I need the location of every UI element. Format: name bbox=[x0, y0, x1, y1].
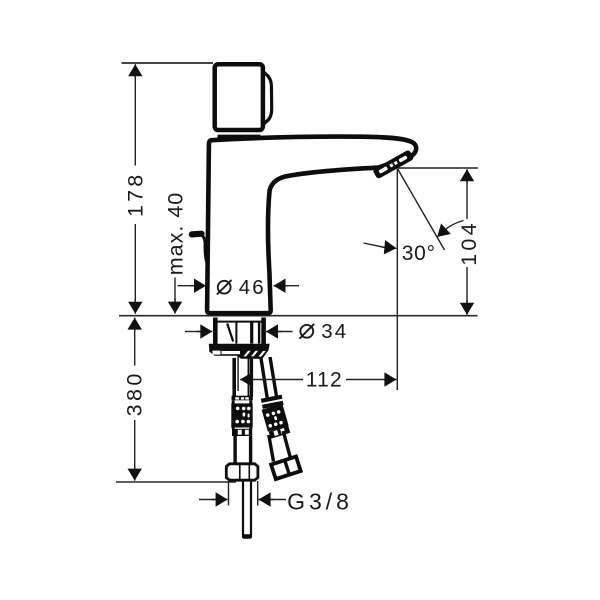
leader max. 40 (countertop thickness) bbox=[174, 278, 176, 314]
temperature lever bar bbox=[192, 231, 202, 238]
temperature lever stem bbox=[202, 235, 207, 262]
vertical hose: braided section bbox=[231, 403, 252, 427]
svg-text:max. 40: max. 40 bbox=[163, 192, 187, 275]
svg-text:G3/8: G3/8 bbox=[287, 488, 353, 514]
hex connection nut bbox=[226, 464, 258, 480]
outlet vertical extension line bbox=[396, 169, 398, 391]
dimension 104 (outlet height) bbox=[466, 169, 468, 315]
angle arc leader arrow bbox=[437, 221, 463, 237]
diagonal hose: lower collar band bbox=[269, 426, 291, 439]
select button on handle knob bbox=[263, 71, 272, 125]
faucet body and spout outline bbox=[207, 137, 416, 314]
vertical hose: lower tube bbox=[235, 436, 251, 464]
diagonal hose: upper tube bbox=[261, 357, 277, 399]
svg-text:178: 178 bbox=[124, 172, 148, 217]
vertical hose: lower collar band bbox=[232, 428, 252, 437]
diameter symbol of 46 bbox=[217, 280, 232, 295]
svg-text:46: 46 bbox=[239, 276, 266, 299]
svg-text:34: 34 bbox=[321, 320, 348, 343]
dimension 178 (spout height) bbox=[134, 64, 136, 314]
svg-text:104: 104 bbox=[457, 220, 481, 265]
faucet centerline bbox=[237, 357, 239, 392]
diagonal hose coupling block bbox=[271, 457, 301, 480]
svg-text:112: 112 bbox=[306, 369, 343, 392]
diagonal hose: braided section bbox=[262, 404, 289, 432]
lower reference line (supply connection level) bbox=[116, 481, 236, 483]
dimension diameter 46 (body) bbox=[178, 285, 300, 287]
aerator band at spout outlet bbox=[372, 149, 414, 179]
dimension diameter 34 (shank) bbox=[185, 331, 293, 333]
vertical hose: upper collar band bbox=[232, 396, 253, 404]
diameter symbol of 34 bbox=[300, 324, 315, 339]
svg-text:30°: 30° bbox=[402, 242, 436, 265]
baseline (countertop level) bbox=[119, 315, 478, 317]
dimension 112 (spout reach) bbox=[240, 379, 396, 381]
30 degree jet angle line bbox=[398, 169, 445, 250]
diagonal hose: upper collar band bbox=[261, 395, 284, 409]
dimension labels bbox=[123, 172, 481, 515]
top reference line (spout height datum) bbox=[122, 62, 214, 64]
dimension G3/8 (thread size) bbox=[199, 481, 286, 506]
diagonal hose: lower tube bbox=[269, 431, 291, 462]
threaded mounting shank bbox=[214, 318, 265, 345]
30 degree label leader arrow bbox=[364, 243, 397, 248]
svg-text:380: 380 bbox=[123, 370, 147, 416]
handle knob body bbox=[215, 64, 263, 130]
vertical supply hose: upper tube bbox=[234, 358, 251, 397]
mounting flange with wedge washer bbox=[209, 344, 270, 359]
knob skirt ring bbox=[218, 135, 261, 138]
dimension 380 (mounting depth) bbox=[134, 318, 136, 481]
outlet horizontal extension line bbox=[398, 167, 478, 169]
G3/8 supply tailpipe bbox=[242, 482, 252, 539]
